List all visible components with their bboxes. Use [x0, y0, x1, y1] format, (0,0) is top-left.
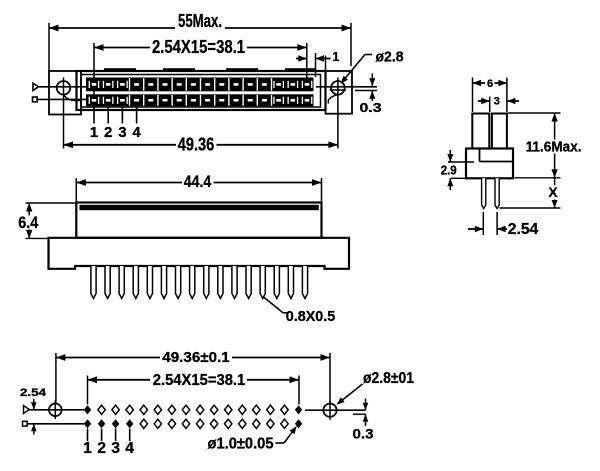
svg-text:3: 3 [494, 96, 500, 108]
end view: dim 6 [473, 78, 507, 113]
side view: wafer top dark band [80, 205, 319, 210]
bottom view: row b marker and line [23, 421, 85, 426]
end view: dim 11.6Max. [508, 113, 582, 178]
bottom view: left mounting hole [46, 401, 65, 420]
svg-text:2.54: 2.54 [508, 221, 539, 238]
svg-text:4: 4 [132, 124, 141, 141]
svg-text:1: 1 [83, 440, 92, 457]
top view: body right edge extension [325, 56, 327, 72]
bottom view: hole number leaders 1 2 3 4 [83, 429, 134, 457]
svg-text:1: 1 [332, 50, 339, 64]
bottom view: dim 2.54X15=38.1 [88, 372, 300, 405]
bottom view: row a holes [84, 405, 302, 414]
top view: polarization bumps on top edge [104, 68, 316, 72]
svg-text:2: 2 [104, 124, 112, 141]
bottom view: dim 0.3 [353, 399, 374, 442]
svg-text:6: 6 [487, 78, 493, 90]
end view: left prong [472, 114, 489, 149]
svg-text:ø2.8±01: ø2.8±01 [363, 370, 414, 387]
top view: right mounting ear [326, 71, 353, 114]
top view: dim 1 (pin to slot edge) [296, 50, 339, 77]
top view: contact row b band [86, 94, 314, 106]
svg-text:2.9: 2.9 [441, 164, 457, 178]
top view: connector body outer outline [77, 71, 326, 110]
svg-text:2.54X15=38.1: 2.54X15=38.1 [153, 372, 246, 389]
svg-text:49.36±0.1: 49.36±0.1 [162, 349, 230, 366]
bottom view: callout &#248;2.8&#177;01 [337, 370, 415, 405]
svg-text:0.8X0.5: 0.8X0.5 [286, 308, 336, 325]
top view: connector body inner outline [81, 75, 321, 108]
side view: base plate [49, 238, 350, 269]
svg-text:11.6Max.: 11.6Max. [526, 140, 582, 156]
top view: left mounting ear [49, 71, 81, 115]
top view: dim 2.54X15=38.1 [94, 37, 307, 96]
top view: callout leader &#248;2.8 [341, 49, 404, 84]
svg-text:ø1.0±0.05: ø1.0±0.05 [208, 435, 274, 452]
top view: row b marker (square) and line [33, 97, 87, 102]
side view: dim 44.4 [76, 173, 321, 203]
side view: insulator wafer [76, 203, 321, 238]
svg-text:2: 2 [97, 440, 106, 457]
top view: dim 55Max. [49, 11, 351, 71]
side view: callout 0.8X0.5 [264, 297, 336, 325]
bottom view: right mounting hole [305, 401, 366, 420]
end view: dim 2.54 [468, 212, 538, 238]
bottom view: callout &#248;1.0&#177;0.05 [208, 426, 297, 452]
svg-text:2.54X15=38.1: 2.54X15=38.1 [152, 37, 245, 57]
end view: dim 3 [478, 96, 519, 112]
top view: right mounting hole [328, 78, 346, 104]
bottom view: row b holes [84, 419, 302, 428]
svg-text:1: 1 [90, 124, 98, 141]
bottom view: dim 49.36&#177;0.1 [56, 349, 330, 403]
end view: dim 2.9 [441, 150, 474, 190]
end view: right prong [492, 114, 507, 149]
top view: row a marker (triangle) and line [33, 83, 377, 90]
top view: contact row a band [86, 78, 314, 92]
svg-text:0.3: 0.3 [360, 100, 382, 115]
top view: left mounting hole [57, 78, 81, 101]
svg-text:3: 3 [118, 124, 126, 141]
svg-text:ø2.8: ø2.8 [376, 49, 404, 66]
bottom view: dim 2.54 row pitch [20, 387, 47, 434]
svg-text:55Max.: 55Max. [178, 11, 222, 31]
svg-text:44.4: 44.4 [184, 173, 212, 191]
svg-text:2.54: 2.54 [20, 387, 47, 399]
svg-text:6.4: 6.4 [18, 214, 39, 232]
side view: 16 solder pins [91, 266, 308, 299]
svg-text:0.3: 0.3 [353, 426, 374, 442]
svg-text:49.36: 49.36 [178, 135, 215, 155]
top view: dim 49.36 [64, 100, 338, 155]
end view: two solder pins [482, 178, 500, 208]
svg-text:3: 3 [111, 440, 120, 457]
side view: dim 6.4 [18, 203, 76, 238]
end view: dim X [500, 178, 561, 208]
bottom view: row a marker and line [24, 406, 85, 414]
svg-text:4: 4 [125, 440, 134, 457]
svg-text:X: X [548, 185, 558, 200]
top view: pin number leaders 1 2 3 4 [90, 107, 142, 141]
top view: dim 0.3 (hole offset) [355, 74, 382, 116]
end view: body block [466, 149, 513, 179]
